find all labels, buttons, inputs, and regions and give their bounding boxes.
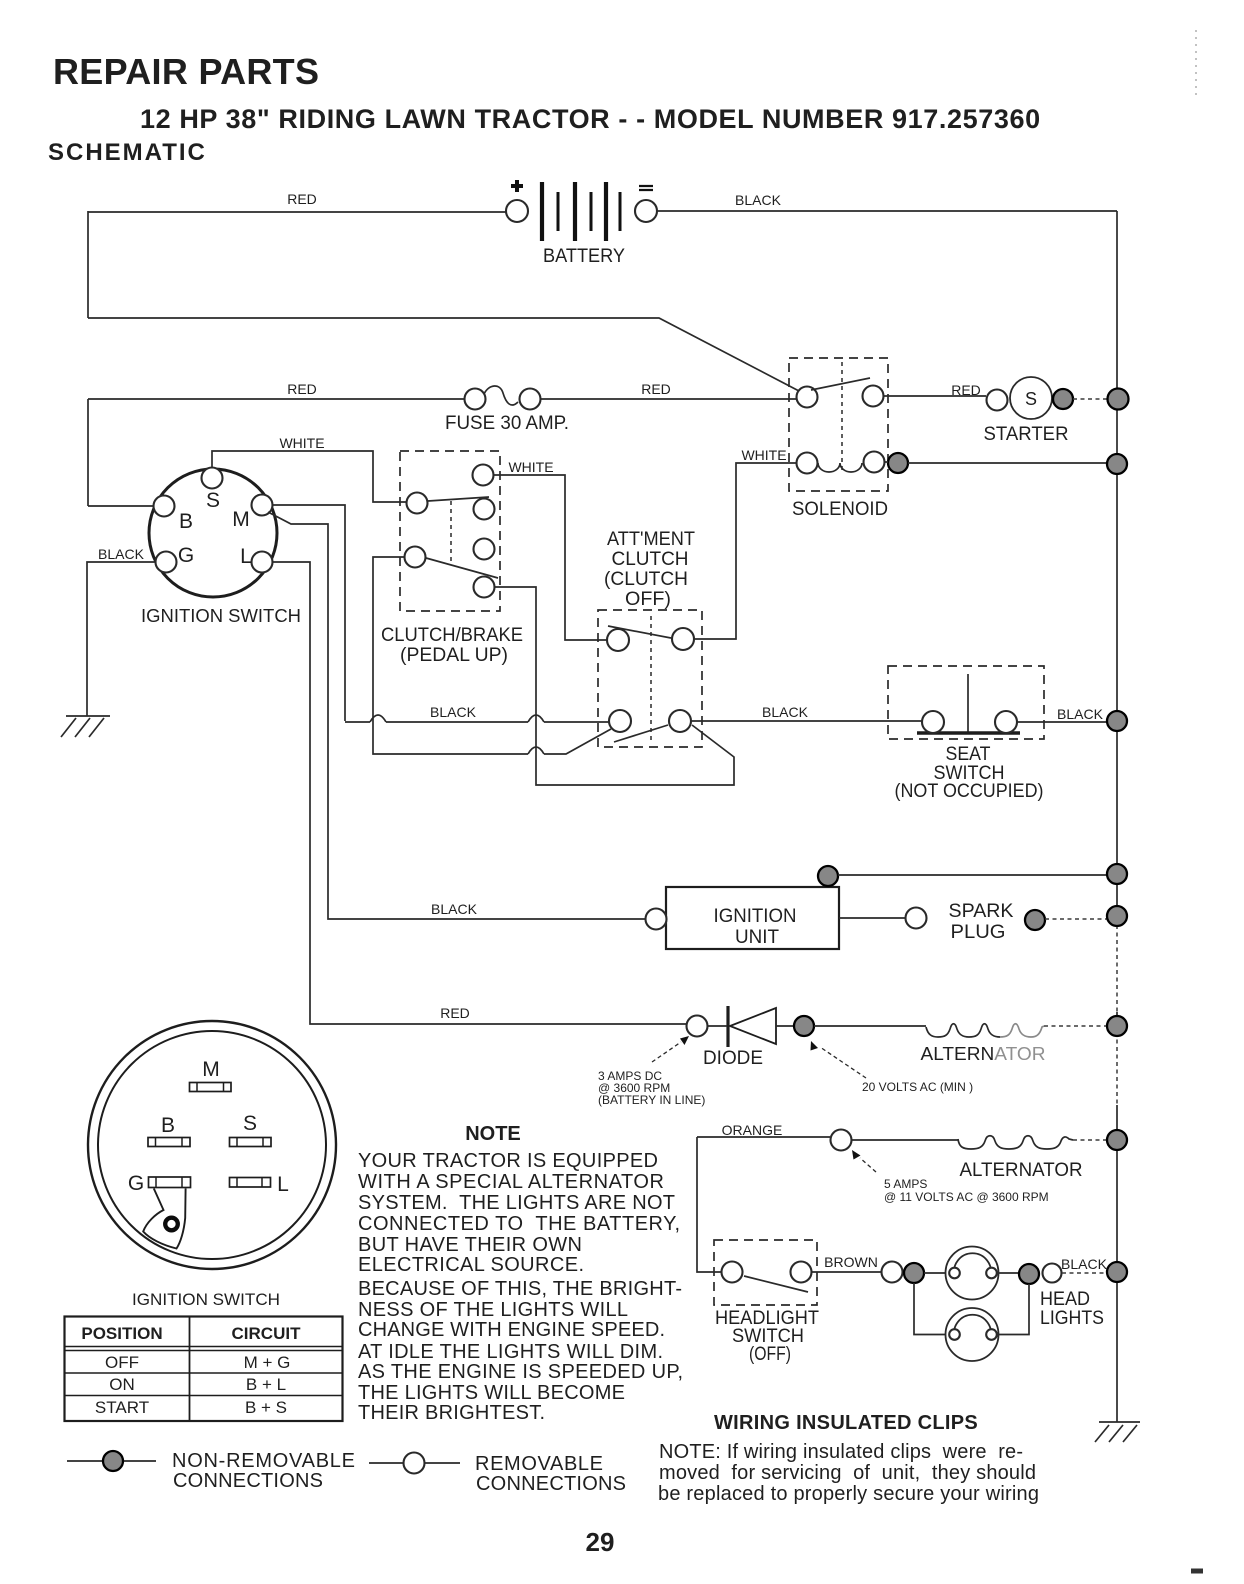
svg-text:SOLENOID: SOLENOID (792, 499, 888, 520)
wire fuse to solenoid red (541, 381, 796, 399)
terminal alternator lighting (831, 1130, 852, 1151)
wire seat switch to bus black (1017, 706, 1107, 722)
svg-text:M: M (232, 508, 250, 531)
svg-text:(BATTERY IN LINE): (BATTERY IN LINE) (598, 1093, 705, 1107)
svg-text:THE LIGHTS WILL BECOME: THE LIGHTS WILL BECOME (358, 1382, 625, 1404)
hop y754 (528, 747, 544, 754)
alternator lower label (960, 1160, 1083, 1181)
ground chassis left (61, 716, 110, 737)
headlight switch label (715, 1308, 819, 1365)
svg-text:G: G (128, 1172, 144, 1195)
note body text (358, 1150, 683, 1424)
junction bus spark row (1107, 906, 1127, 926)
svg-text:RED: RED (641, 381, 671, 397)
hop y722 right (528, 715, 544, 722)
wire black attment to seat switch (691, 704, 922, 721)
svg-text:HEAD: HEAD (1040, 1289, 1090, 1310)
attment clutch arm lower (614, 725, 668, 742)
svg-text:CONNECTIONS: CONNECTIONS (173, 1470, 323, 1492)
svg-text:@ 11 VOLTS AC @ 3600 RPM: @ 11 VOLTS AC @ 3600 RPM (884, 1190, 1049, 1204)
wire black M to attment clutch (345, 704, 609, 722)
svg-text:S: S (243, 1112, 257, 1135)
callout 5 amps (852, 1150, 1049, 1204)
svg-text:BLACK: BLACK (762, 704, 809, 720)
svg-text:be replaced to properly secure: be replaced to properly secure your wiri… (658, 1483, 1039, 1505)
svg-text:B + L: B + L (246, 1375, 286, 1394)
svg-text:WIRING INSULATED CLIPS: WIRING INSULATED CLIPS (714, 1412, 978, 1434)
callout 20 volts ac (811, 1041, 974, 1094)
junction bus starter row (1108, 389, 1129, 410)
wire headlight switch brown (812, 1254, 882, 1272)
wire alternator to bus dotted (1044, 1025, 1107, 1027)
scan artifact marks (1191, 30, 1203, 1571)
svg-text:CONNECTED TO THE BATTERY,: CONNECTED TO THE BATTERY, (358, 1213, 680, 1235)
alternator coil lower (958, 1136, 1073, 1149)
svg-text:ALTERNATOR: ALTERNATOR (960, 1160, 1083, 1181)
wire clutch brake white to attment clutch (494, 459, 607, 640)
legend removable connections (369, 1453, 626, 1496)
svg-text:BECAUSE OF THIS, THE BRIGHT-: BECAUSE OF THIS, THE BRIGHT- (358, 1278, 682, 1300)
wire S white to clutch brake (212, 435, 406, 502)
wire diode to alternator (814, 1025, 926, 1027)
svg-text:ON: ON (109, 1375, 135, 1394)
svg-text:moved for servicing of unit: moved for servicing of unit, they should (659, 1462, 1036, 1484)
svg-text:L: L (240, 545, 252, 568)
attment clutch box (598, 610, 702, 747)
svg-text:G: G (178, 544, 194, 567)
clutch brake switch box (400, 451, 500, 611)
ignition switch detail caption (132, 1290, 280, 1309)
junction diode cathode (794, 1016, 814, 1036)
svg-text:RED: RED (440, 1005, 470, 1021)
wire orange down to headlight switch (697, 1137, 722, 1272)
terminal diode anode (687, 1016, 708, 1037)
ignition switch detail graphic (88, 1021, 336, 1269)
svg-text:S: S (206, 489, 220, 512)
terminal L spade (230, 1173, 289, 1196)
wire orange row (697, 1122, 830, 1138)
fuse F1 30 amp (465, 386, 541, 410)
junction headlight feed (904, 1263, 924, 1283)
junction bus seat row (1107, 711, 1127, 731)
svg-text:PLUG: PLUG (951, 922, 1006, 943)
junction starter out (1053, 389, 1073, 409)
wire battery negative black top (657, 192, 1117, 211)
headlight switch box (714, 1240, 817, 1305)
wire ignition unit to spark plug (839, 917, 905, 919)
svg-text:SEAT: SEAT (946, 744, 991, 765)
svg-text:12 HP 38" RIDING LAWN TRACTOR: 12 HP 38" RIDING LAWN TRACTOR - - MODEL … (140, 104, 1041, 134)
svg-text:20 VOLTS AC (MIN ): 20 VOLTS AC (MIN ) (862, 1080, 973, 1094)
svg-text:S: S (1025, 389, 1037, 409)
svg-text:START: START (95, 1398, 149, 1417)
hop y722 left (370, 715, 386, 722)
svg-text:ATT'MENT: ATT'MENT (607, 529, 695, 550)
svg-text:THEIR BRIGHTEST.: THEIR BRIGHTEST. (358, 1402, 545, 1424)
head lamp bottom (946, 1308, 999, 1361)
wire M to ignition unit black (268, 512, 645, 919)
schematic label (48, 139, 207, 166)
svg-text:(CLUTCH: (CLUTCH (604, 569, 688, 590)
legend non-removable connections (67, 1450, 355, 1492)
terminal M spade (190, 1058, 232, 1092)
wire solenoid to starter red (884, 382, 986, 398)
svg-text:CIRCUIT: CIRCUIT (232, 1324, 302, 1343)
junction headlight return (1019, 1264, 1039, 1284)
alternator upper label faded (921, 1044, 1046, 1064)
head lights label (1040, 1289, 1104, 1329)
ignition key (143, 1189, 185, 1249)
wire red fuse row (88, 381, 464, 399)
wire battery loop to solenoid (88, 318, 799, 391)
wire ignition unit top to bus (838, 874, 1107, 876)
svg-text:BLACK: BLACK (430, 704, 477, 720)
ignition switch SW1 (149, 468, 277, 598)
svg-text:B: B (179, 510, 193, 533)
wire to bottom lamp left (914, 1283, 949, 1335)
svg-text:BROWN: BROWN (824, 1254, 878, 1270)
svg-text:OFF): OFF) (625, 589, 671, 610)
svg-text:RED: RED (951, 382, 981, 398)
junction bus headlight row (1107, 1262, 1127, 1282)
svg-text:BLACK: BLACK (98, 546, 145, 562)
svg-text:RED: RED (287, 191, 317, 207)
wire attment clutch white to solenoid (694, 447, 796, 639)
clutch brake switch arm lower (426, 558, 498, 578)
title REPAIR PARTS (53, 51, 319, 92)
svg-text:ORANGE: ORANGE (722, 1122, 783, 1138)
svg-text:DIODE: DIODE (703, 1048, 763, 1069)
diode D1 (708, 1006, 795, 1047)
svg-text:CHANGE WITH ENGINE SPEED.: CHANGE WITH ENGINE SPEED. (358, 1319, 665, 1341)
wire solenoid to bus white row (885, 462, 1107, 463)
svg-text:5 AMPS: 5 AMPS (884, 1177, 927, 1191)
ground chassis right (1095, 1422, 1140, 1442)
svg-text:(PEDAL UP): (PEDAL UP) (400, 645, 508, 666)
wire lighting coil to bus dotted (1073, 1139, 1107, 1141)
battery label (543, 246, 625, 267)
alternator coil upper (926, 1015, 1048, 1043)
svg-text:FUSE 30 AMP.: FUSE 30 AMP. (445, 413, 569, 434)
svg-text:BLACK: BLACK (431, 901, 478, 917)
terminal headlight feed (882, 1262, 903, 1283)
svg-text:B + S: B + S (245, 1398, 287, 1417)
solenoid label (792, 499, 888, 520)
attment clutch terminals (607, 628, 694, 732)
spark plug label (949, 901, 1014, 943)
wiring insulated clips note (658, 1441, 1039, 1505)
ignition switch label (141, 606, 301, 626)
svg-text:UNIT: UNIT (735, 927, 779, 948)
terminal S spade (230, 1112, 272, 1147)
svg-text:REMOVABLE: REMOVABLE (475, 1453, 603, 1475)
junction solenoid coil out (888, 453, 908, 473)
junction bus diode row (1107, 1016, 1127, 1036)
solenoid box (789, 358, 888, 491)
headlight switch arm (744, 1276, 808, 1292)
wire to terminal B (88, 505, 153, 507)
junction bus orange row (1107, 1130, 1127, 1150)
svg-text:L: L (277, 1173, 289, 1196)
wire battery positive red top (88, 191, 506, 212)
svg-text:BLACK: BLACK (1061, 1256, 1108, 1272)
clutch brake terminals (405, 465, 495, 598)
svg-text:IGNITION: IGNITION (714, 906, 797, 927)
svg-text:BATTERY: BATTERY (543, 246, 625, 267)
position circuit table (65, 1317, 343, 1422)
svg-text:LIGHTS: LIGHTS (1040, 1308, 1104, 1329)
wire to top lamp (924, 1272, 949, 1274)
svg-text:NOTE: If wiring insulated clip: NOTE: If wiring insulated clips were re- (659, 1441, 1023, 1463)
terminal spark plug (906, 908, 927, 929)
terminal G spade (128, 1172, 191, 1195)
svg-text:CLUTCH: CLUTCH (612, 549, 689, 570)
junction bus solenoid row (1107, 454, 1127, 474)
junction ignition unit top (818, 866, 838, 886)
clutch brake label (381, 625, 523, 666)
svg-text:WHITE: WHITE (508, 459, 553, 475)
seat switch box (888, 666, 1044, 739)
svg-text:M: M (202, 1058, 220, 1081)
svg-text:RED: RED (287, 381, 317, 397)
solenoid terminals (797, 386, 885, 474)
starter label (984, 424, 1069, 445)
svg-text:SYSTEM. THE LIGHTS ARE NOT: SYSTEM. THE LIGHTS ARE NOT (358, 1192, 675, 1214)
svg-text:POSITION: POSITION (81, 1324, 162, 1343)
wire top lamp to junction (997, 1272, 1019, 1274)
left vertical wire top (87, 211, 89, 318)
seat switch label (895, 744, 1044, 802)
svg-text:BUT HAVE THEIR OWN: BUT HAVE THEIR OWN (358, 1234, 582, 1256)
wire L red to diode (273, 562, 686, 1024)
wire starter to bus (1073, 398, 1107, 400)
headlight switch terminals (722, 1262, 812, 1283)
svg-text:IGNITION SWITCH: IGNITION SWITCH (141, 606, 301, 626)
junction bus ignition row (1107, 864, 1127, 884)
svg-text:STARTER: STARTER (984, 424, 1069, 445)
solenoid switch arm (811, 378, 870, 390)
seat switch S2 (917, 674, 1020, 733)
head lamp top (946, 1247, 999, 1300)
svg-text:IGNITION SWITCH: IGNITION SWITCH (132, 1290, 280, 1309)
svg-text:NON-REMOVABLE: NON-REMOVABLE (172, 1450, 355, 1472)
right bus wire (1116, 211, 1118, 1422)
left vertical wire to B (87, 399, 89, 506)
wire M black down (273, 505, 345, 721)
svg-text:YOUR TRACTOR IS EQUIPPED: YOUR TRACTOR IS EQUIPPED (358, 1150, 658, 1172)
starter M1 (1010, 377, 1052, 419)
clutch brake switch arm upper (428, 497, 489, 501)
svg-text:29: 29 (586, 1527, 615, 1557)
battery B1 (506, 180, 657, 241)
attment clutch label (604, 529, 695, 610)
wire clutch brake lower right loop (495, 587, 734, 785)
page number (586, 1527, 615, 1557)
svg-text:ELECTRICAL SOURCE.: ELECTRICAL SOURCE. (358, 1254, 584, 1276)
terminal headlight return (1043, 1264, 1062, 1283)
svg-text:B: B (161, 1114, 175, 1137)
svg-text:SPARK: SPARK (949, 901, 1014, 922)
svg-text:WHITE: WHITE (279, 435, 324, 451)
fuse label (445, 413, 569, 434)
attment clutch arm upper (608, 626, 671, 638)
svg-text:BLACK: BLACK (1057, 706, 1104, 722)
svg-text:AT IDLE THE LIGHTS WILL DIM.: AT IDLE THE LIGHTS WILL DIM. (358, 1341, 663, 1363)
solenoid coil (818, 463, 862, 472)
svg-text:OFF: OFF (105, 1353, 139, 1372)
note heading (465, 1123, 521, 1145)
wire bottom lamp return (997, 1284, 1029, 1335)
wire headlight to bus black dotted (1061, 1256, 1108, 1273)
wire to lighting coil (852, 1139, 959, 1141)
wire spark plug to bus (1045, 918, 1107, 920)
wire G black to ground (87, 546, 155, 716)
callout 3 amps dc (598, 1036, 705, 1107)
svg-text:CLUTCH/BRAKE: CLUTCH/BRAKE (381, 625, 523, 646)
junction spark plug (1025, 910, 1045, 930)
svg-text:M + G: M + G (244, 1353, 291, 1372)
svg-text:CONNECTIONS: CONNECTIONS (476, 1473, 626, 1495)
diode label (703, 1048, 763, 1069)
wire clutch brake lower left to black net (373, 557, 611, 754)
ignition unit U1 (666, 887, 839, 949)
svg-text:ALTERNATOR: ALTERNATOR (921, 1044, 1046, 1064)
svg-text:SCHEMATIC: SCHEMATIC (48, 139, 207, 166)
terminal B spade (148, 1114, 190, 1147)
svg-text:NESS OF THE LIGHTS WILL: NESS OF THE LIGHTS WILL (358, 1299, 628, 1321)
starter terminal (987, 390, 1008, 411)
svg-text:BLACK: BLACK (735, 192, 782, 208)
svg-text:WITH A SPECIAL ALTERNATOR: WITH A SPECIAL ALTERNATOR (358, 1171, 664, 1193)
svg-text:(OFF): (OFF) (749, 1344, 791, 1365)
svg-text:AS THE ENGINE IS SPEEDED UP,: AS THE ENGINE IS SPEEDED UP, (358, 1361, 683, 1383)
wiring insulated clips heading (714, 1412, 978, 1434)
svg-text:WHITE: WHITE (741, 447, 786, 463)
subtitle model number (140, 104, 1041, 134)
svg-text:REPAIR PARTS: REPAIR PARTS (53, 51, 319, 92)
terminal ignition unit left (646, 909, 667, 930)
svg-text:NOTE: NOTE (465, 1123, 521, 1145)
svg-text:(NOT OCCUPIED): (NOT OCCUPIED) (895, 781, 1044, 802)
